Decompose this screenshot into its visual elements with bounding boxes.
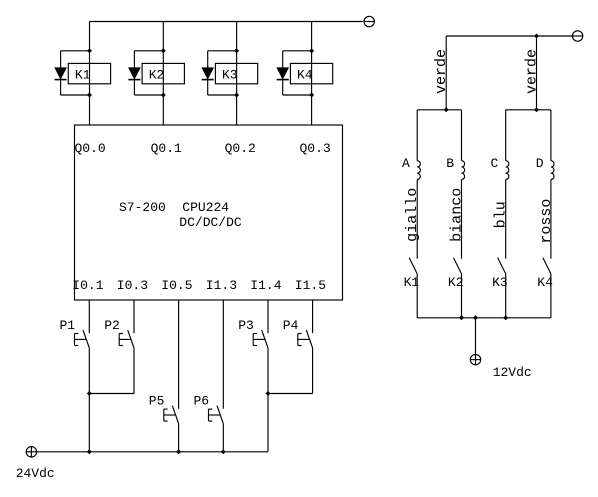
wire input below P4 bbox=[268, 348, 313, 394]
winding coil C bbox=[491, 156, 509, 180]
wire phase A middle bbox=[416, 180, 418, 259]
wire input above P3 bbox=[267, 300, 269, 333]
wire input above P2 bbox=[133, 300, 135, 333]
wire input above P1 bbox=[88, 300, 90, 333]
relay coil K3 bbox=[215, 63, 257, 83]
wire input above P6 bbox=[222, 300, 224, 409]
contact K2 bbox=[448, 258, 464, 291]
svg-text:CPU224: CPU224 bbox=[182, 200, 229, 215]
wire input below P1 bbox=[88, 348, 90, 452]
junction node bottom bar at stem bbox=[473, 315, 478, 320]
wire input below P3 bbox=[37, 348, 268, 452]
pin label Q0.1 bbox=[151, 141, 182, 156]
junction node bottom rail at P6 bbox=[221, 449, 226, 454]
pushbutton P5 bbox=[149, 394, 179, 424]
svg-text:24Vdc: 24Vdc bbox=[16, 466, 55, 481]
junction node bottom of K1 bbox=[87, 93, 92, 98]
wire input below P6 bbox=[222, 424, 224, 452]
wire bottom bar 12V bbox=[417, 317, 551, 319]
svg-text:Q0.2: Q0.2 bbox=[225, 141, 256, 156]
contact K3 bbox=[492, 258, 508, 291]
svg-text:K1: K1 bbox=[75, 67, 91, 82]
wire output branch K2 bbox=[162, 22, 164, 126]
pushbutton P4 bbox=[283, 318, 313, 348]
svg-text:K2: K2 bbox=[149, 67, 165, 82]
wire phase A lower bbox=[416, 274, 418, 318]
wire 12V stem bbox=[475, 318, 477, 355]
wire verde stem right bbox=[536, 36, 538, 110]
svg-text:B: B bbox=[446, 156, 454, 171]
flyback diode across K1 bbox=[55, 51, 90, 95]
junction node bar C-D bbox=[534, 107, 539, 112]
pin label I1.4 bbox=[250, 278, 281, 293]
svg-text:rosso: rosso bbox=[538, 199, 555, 244]
net label blu bbox=[493, 201, 510, 228]
pin label I0.3 bbox=[117, 278, 148, 293]
wire phase D middle bbox=[550, 180, 552, 259]
terminal minus 12Vdc supply bbox=[572, 31, 582, 41]
wire output branch K1 bbox=[89, 22, 91, 126]
svg-text:Q0.3: Q0.3 bbox=[300, 141, 331, 156]
flyback diode across K2 bbox=[128, 51, 163, 95]
PLC S7-200 CPU224 bbox=[75, 125, 343, 300]
wire phase B middle bbox=[461, 180, 463, 259]
wire top supply rail (relay common) bbox=[90, 21, 363, 23]
terminal minus 24Vdc supply bbox=[364, 16, 374, 26]
svg-text:C: C bbox=[491, 156, 499, 171]
net label verde (right) bbox=[524, 49, 541, 94]
wire input below P2 bbox=[89, 348, 134, 394]
relay coil K4 bbox=[290, 63, 332, 83]
pin label I1.5 bbox=[295, 278, 326, 293]
svg-text:P2: P2 bbox=[104, 318, 120, 333]
winding coil B bbox=[446, 156, 464, 180]
wire phase D upper bbox=[550, 110, 552, 161]
contact K1 bbox=[404, 258, 420, 291]
junction node bottom bar at C bbox=[503, 315, 508, 320]
terminal plus 24Vdc supply bbox=[26, 447, 36, 457]
contact K4 bbox=[537, 258, 553, 291]
wire input above P4 bbox=[312, 300, 314, 333]
svg-text:D: D bbox=[536, 156, 544, 171]
wire phase A upper bbox=[416, 110, 418, 161]
svg-text:P4: P4 bbox=[283, 318, 299, 333]
svg-text:I0.5: I0.5 bbox=[161, 278, 192, 293]
net label rosso bbox=[538, 199, 555, 244]
wire input above P5 bbox=[178, 300, 180, 409]
svg-text:P1: P1 bbox=[59, 318, 75, 333]
junction node bottom of K2 bbox=[161, 93, 166, 98]
pushbutton P6 bbox=[193, 394, 223, 424]
junction node bar A-B bbox=[444, 107, 449, 112]
junction node verde right at rail bbox=[534, 34, 539, 39]
wire phase B lower bbox=[461, 274, 463, 318]
svg-text:P5: P5 bbox=[149, 394, 165, 409]
wire phase C middle bbox=[505, 180, 507, 259]
net label bianco bbox=[449, 188, 466, 242]
wire winding bar C-D bbox=[506, 109, 551, 111]
junction node top of K1 bbox=[87, 48, 92, 53]
wire input below P5 bbox=[178, 424, 180, 452]
junction node top of K4 bbox=[309, 48, 314, 53]
flyback diode across K3 bbox=[202, 51, 237, 95]
svg-text:verde: verde bbox=[433, 49, 450, 94]
wire top supply rail (12V side) bbox=[446, 35, 572, 37]
pin label I0.5 bbox=[161, 278, 192, 293]
svg-text:K3: K3 bbox=[222, 67, 238, 82]
wire phase B upper bbox=[461, 110, 463, 161]
relay coil K1 bbox=[68, 63, 110, 83]
winding coil A bbox=[402, 156, 420, 180]
junction node P1/P2 bbox=[87, 391, 92, 396]
terminal plus 12Vdc supply bbox=[470, 354, 480, 364]
svg-text:verde: verde bbox=[524, 49, 541, 94]
svg-text:I1.4: I1.4 bbox=[250, 278, 281, 293]
winding coil D bbox=[536, 156, 554, 180]
junction node bottom of K3 bbox=[234, 93, 239, 98]
pushbutton P2 bbox=[104, 318, 134, 348]
junction node top of K3 bbox=[234, 48, 239, 53]
svg-text:giallo: giallo bbox=[404, 188, 421, 242]
relay coil K2 bbox=[142, 63, 184, 83]
junction node bottom rail at P5 bbox=[176, 449, 181, 454]
wire phase D lower bbox=[550, 274, 552, 318]
svg-text:bianco: bianco bbox=[449, 188, 466, 242]
svg-text:blu: blu bbox=[493, 201, 510, 228]
net label verde (left) bbox=[433, 49, 450, 94]
svg-text:Q0.0: Q0.0 bbox=[75, 141, 106, 156]
svg-text:DC/DC/DC: DC/DC/DC bbox=[179, 215, 242, 230]
net label giallo bbox=[404, 188, 421, 242]
svg-text:I0.3: I0.3 bbox=[117, 278, 148, 293]
svg-text:I0.1: I0.1 bbox=[72, 278, 103, 293]
junction node P3/P4 bbox=[266, 391, 271, 396]
svg-text:K4: K4 bbox=[297, 67, 313, 82]
pin label I1.3 bbox=[206, 278, 237, 293]
junction node bottom bar at B bbox=[459, 315, 464, 320]
flyback diode across K4 bbox=[277, 51, 312, 95]
wire winding bar A-B bbox=[417, 109, 461, 111]
svg-text:Q0.1: Q0.1 bbox=[151, 141, 182, 156]
wire phase C upper bbox=[505, 110, 507, 161]
svg-text:A: A bbox=[402, 156, 410, 171]
wire output branch K4 bbox=[311, 22, 313, 126]
pin label Q0.3 bbox=[300, 141, 331, 156]
svg-text:12Vdc: 12Vdc bbox=[493, 365, 532, 380]
wire verde stem left bbox=[445, 36, 447, 110]
svg-text:I1.3: I1.3 bbox=[206, 278, 237, 293]
junction node bottom of K4 bbox=[309, 93, 314, 98]
value label 24Vdc bbox=[16, 466, 55, 481]
pushbutton P1 bbox=[59, 318, 89, 348]
pin label Q0.2 bbox=[225, 141, 256, 156]
value label 12Vdc bbox=[493, 365, 532, 380]
pin label I0.1 bbox=[72, 278, 103, 293]
svg-text:S7-200: S7-200 bbox=[119, 200, 166, 215]
wire phase C lower bbox=[505, 274, 507, 318]
junction node bottom rail at P1 bbox=[87, 449, 92, 454]
pushbutton P3 bbox=[238, 318, 268, 348]
junction node top of K2 bbox=[161, 48, 166, 53]
wire output branch K3 bbox=[236, 22, 238, 126]
pin label Q0.0 bbox=[75, 141, 106, 156]
svg-text:I1.5: I1.5 bbox=[295, 278, 326, 293]
svg-text:P6: P6 bbox=[193, 394, 209, 409]
svg-text:P3: P3 bbox=[238, 318, 254, 333]
